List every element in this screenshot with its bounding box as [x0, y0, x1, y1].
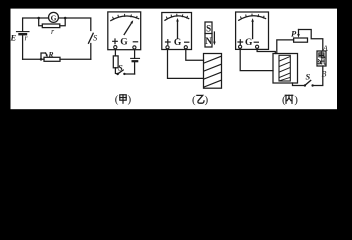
svg-text:(: ( [192, 94, 196, 106]
terminal minus M2 [184, 46, 187, 49]
wire bottom left [23, 58, 44, 60]
switch S3 contact dot [311, 84, 313, 86]
terminal plus M3 [239, 45, 242, 48]
node right junction [64, 17, 67, 20]
meter M1 needle [124, 23, 131, 35]
wire resistor to switch [115, 68, 117, 74]
switch S1 blade [89, 33, 94, 43]
resistor box jia [113, 56, 118, 68]
terminal plus M2 [166, 46, 169, 49]
rheostat P box [294, 38, 308, 42]
minus sign M3 [254, 41, 258, 43]
wire yi left [168, 49, 204, 79]
minus sign M2 [185, 41, 189, 43]
wire left side down [22, 34, 24, 59]
svg-text:R: R [48, 50, 54, 59]
wire bottom jia [124, 73, 134, 75]
wire battery to minus terminal [134, 50, 136, 59]
svg-text:E: E [10, 33, 17, 43]
wire shunt branch left [39, 18, 43, 26]
terminal minus M3 [256, 45, 259, 48]
switch S3 blade [305, 80, 311, 85]
meter M2 scale arc [165, 16, 189, 20]
svg-text:P: P [291, 28, 297, 38]
arrow magnet moving down [213, 32, 215, 42]
meter M1 box [108, 12, 141, 50]
wire yi right [186, 49, 204, 60]
wire switch to coil bottom [293, 83, 305, 86]
plus sign M1 [113, 39, 118, 44]
switch S3 pivot dot [304, 84, 306, 86]
meter M2 ticks [167, 14, 188, 19]
wire top from G to switch corner [59, 18, 91, 31]
plus sign M3 [238, 40, 243, 45]
terminal plus M1 [114, 46, 117, 49]
svg-text:S: S [306, 72, 311, 82]
battery jia long plate [131, 57, 140, 59]
minus sign M1 [133, 41, 137, 43]
wire right side lower [90, 44, 92, 60]
coil L1 windings [204, 56, 221, 87]
inner coil windings [279, 57, 290, 81]
wire bottom right [60, 58, 91, 60]
battery box (dianchi) [317, 51, 326, 66]
svg-text:G: G [245, 38, 253, 48]
inner coil box [279, 55, 290, 81]
meter M2 needle [177, 21, 179, 39]
outer coil box [273, 54, 298, 84]
svg-text:S: S [118, 63, 123, 73]
white panel [11, 9, 338, 110]
node slider junction [40, 58, 43, 61]
meter M3 box [236, 12, 269, 49]
rheostat R box [44, 57, 60, 61]
svg-text:G: G [51, 13, 57, 22]
wire shunt branch right [60, 18, 65, 26]
slider arrow P [298, 30, 300, 35]
switch S2 blade [118, 70, 123, 74]
battery E short plate [20, 33, 27, 35]
wire slider arm of R [41, 53, 46, 59]
svg-text:): ) [128, 93, 132, 105]
terminal minus M1 [133, 46, 136, 49]
svg-text:S: S [206, 23, 211, 33]
wire battery up jia [134, 62, 136, 74]
resistor r shunt box [42, 24, 60, 28]
meter M3 ticks [241, 14, 264, 19]
coil L1 box [204, 54, 222, 89]
wire from plus terminal down [114, 50, 116, 56]
svg-text:N: N [205, 36, 212, 46]
plus sign M2 [166, 40, 171, 45]
wire slider loop [299, 30, 323, 52]
meter M2 box [162, 13, 192, 50]
svg-text:(: ( [115, 93, 119, 105]
arrow slider tip [46, 53, 47, 55]
svg-text:G: G [120, 38, 128, 48]
wire top from battery to G [23, 18, 49, 31]
switch S2 contact dot [123, 73, 125, 75]
svg-text:): ) [294, 94, 298, 106]
meter M1 ticks [113, 14, 137, 19]
wire primary top feed [277, 40, 294, 54]
battery E long plate [17, 31, 30, 33]
wire bing plus [240, 48, 273, 70]
meter M3 needle [252, 21, 254, 38]
wire bing minus [257, 48, 275, 53]
meter M1 scale arc [111, 16, 139, 21]
battery jia short plate [133, 60, 138, 62]
svg-text:G: G [174, 38, 182, 48]
meter M3 scale arc [239, 16, 266, 21]
galvanometer U1 circle [49, 12, 59, 22]
node left junction [37, 17, 40, 20]
switch S2 pivot dot [117, 73, 119, 75]
wire battery down to switch [313, 66, 323, 86]
svg-text:): ) [205, 94, 209, 106]
magnet bar [205, 22, 212, 47]
